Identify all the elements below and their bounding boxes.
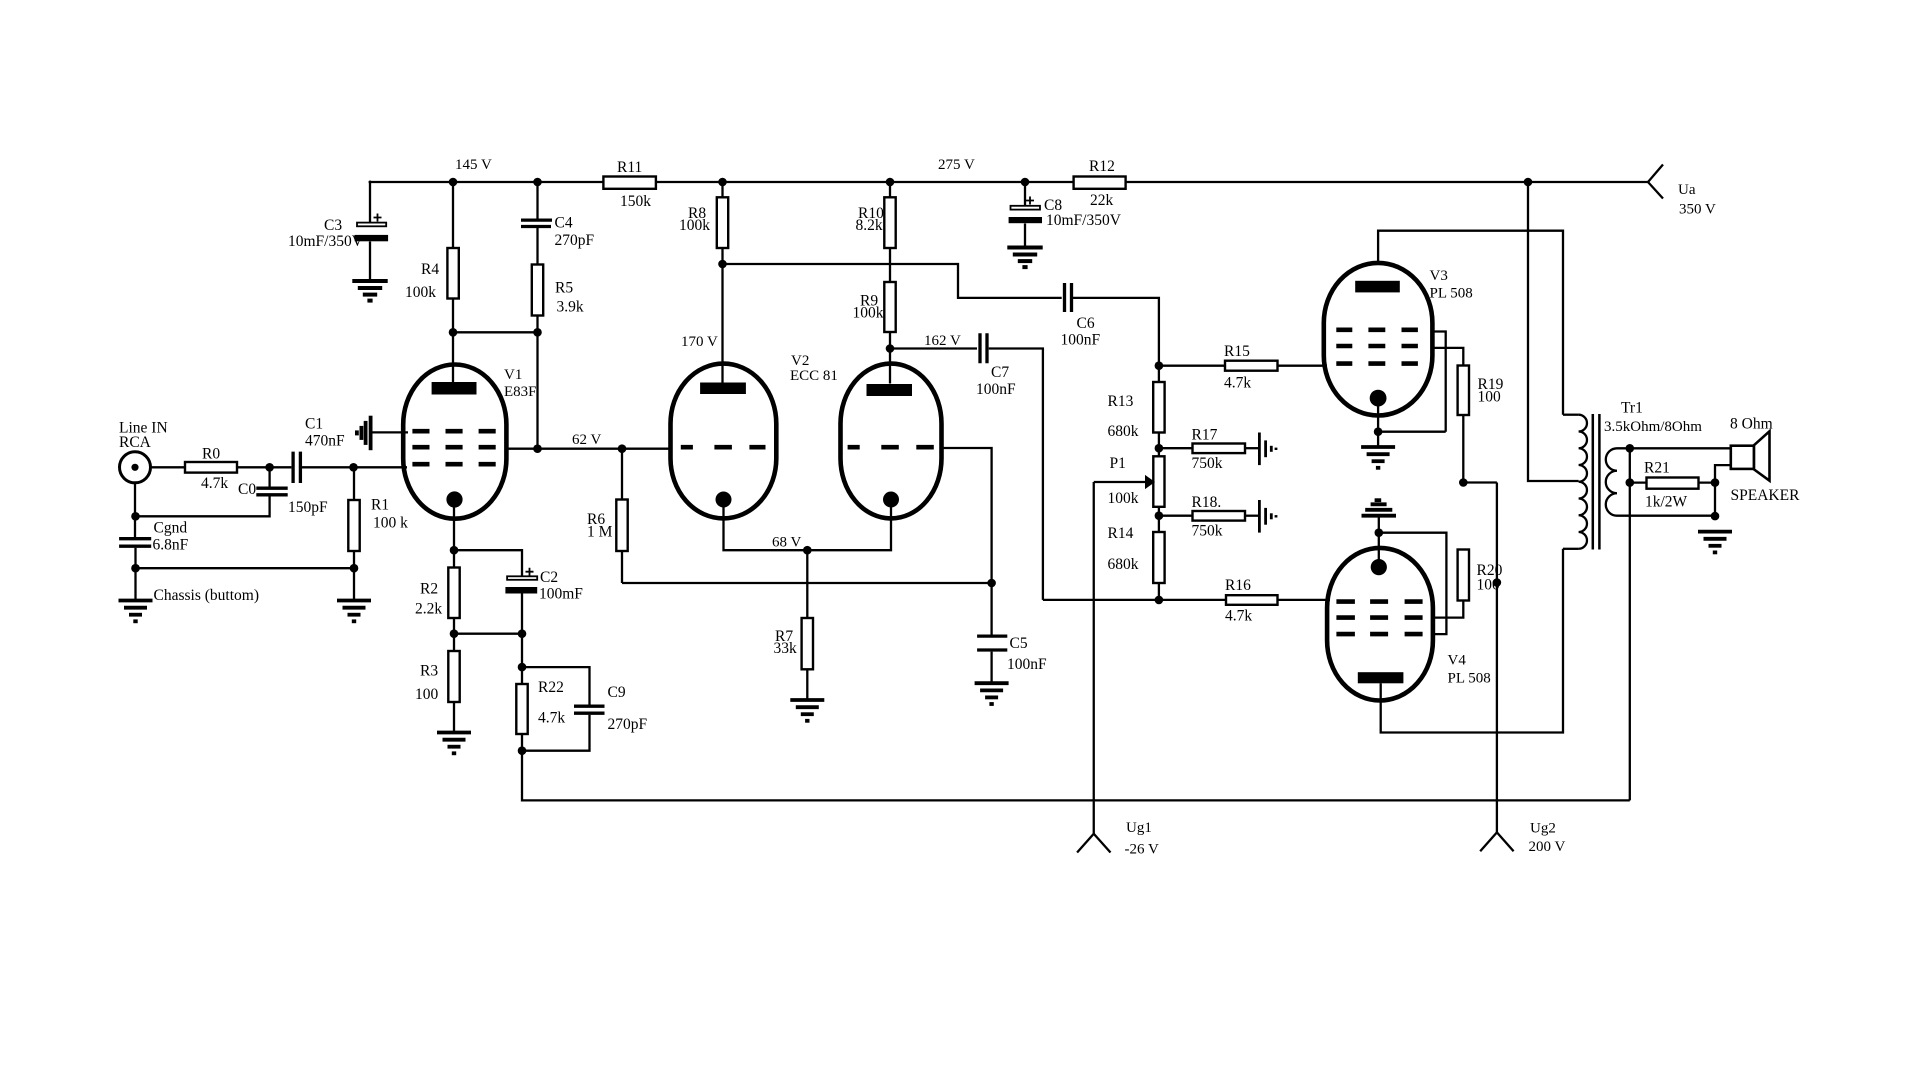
- node rail at R8: [718, 178, 727, 187]
- node 68V cathode junction: [803, 546, 812, 555]
- svg-text:SPEAKER: SPEAKER: [1731, 487, 1801, 504]
- resistor R21 1k/2W: [1630, 460, 1715, 511]
- svg-text:750k: 750k: [1192, 455, 1223, 472]
- resistor R19 100: [1431, 348, 1504, 483]
- wire V2b cathode: [807, 507, 891, 550]
- node R21 right: [1711, 478, 1720, 487]
- wire RCA shield down: [134, 483, 136, 537]
- svg-text:162 V: 162 V: [924, 333, 961, 349]
- svg-text:150pF: 150pF: [288, 499, 328, 516]
- svg-text:680k: 680k: [1108, 423, 1139, 440]
- wire V3 anode top cap to Tr1 primary top: [1378, 231, 1563, 415]
- wire V1 g3 ground: [371, 431, 408, 433]
- svg-text:4.7k: 4.7k: [201, 475, 228, 492]
- resistor R16 4.7k: [1043, 577, 1330, 625]
- resistor R15 4.7k: [1159, 343, 1327, 392]
- resistor R18 750k: [1159, 494, 1259, 540]
- capacitor C7 100nF: [976, 333, 1016, 398]
- svg-text:R11: R11: [617, 159, 642, 176]
- svg-text:C4: C4: [555, 215, 573, 232]
- wire R0 to C1: [237, 466, 291, 468]
- tube V2a ECC81 triode: [671, 364, 777, 519]
- svg-text:100 k: 100 k: [373, 515, 408, 532]
- tube V2b ECC81 triode: [841, 364, 942, 519]
- node R13 top / R15 tap: [1155, 361, 1164, 370]
- capacitor C3 10mF/350V electrolytic: [288, 182, 388, 281]
- resistor R1 100k: [348, 467, 408, 600]
- svg-text:3.5kOhm/8Ohm: 3.5kOhm/8Ohm: [1604, 419, 1702, 435]
- terminal Ug2 200V fork: [1480, 821, 1565, 856]
- svg-text:V3: V3: [1430, 268, 1448, 284]
- svg-text:RCA: RCA: [119, 434, 152, 451]
- svg-text:145 V: 145 V: [455, 157, 492, 173]
- wire secondary bottom: [1617, 515, 1715, 517]
- wire V4 anode to Tr1 primary bottom: [1381, 549, 1563, 733]
- resistor R10 8.2k: [856, 182, 896, 282]
- node R4 bottom: [449, 328, 458, 337]
- svg-text:R14: R14: [1108, 525, 1134, 542]
- capacitor C0 150pF: [136, 467, 329, 516]
- wire V2a cathode: [724, 507, 808, 550]
- node R13/R17 junction: [1155, 444, 1164, 453]
- wire V3 cathode: [1377, 406, 1379, 447]
- svg-text:150k: 150k: [620, 193, 651, 210]
- svg-text:C5: C5: [1010, 635, 1028, 652]
- node R19/R20/Ug2 junction: [1459, 478, 1468, 487]
- wire V4 g3 to cathode: [1379, 533, 1447, 634]
- svg-text:100: 100: [415, 686, 439, 703]
- node 162V at R9 bottom: [886, 344, 895, 353]
- svg-text:C3: C3: [324, 217, 342, 234]
- wire C1 to V1 grid: [302, 466, 407, 468]
- svg-text:1k/2W: 1k/2W: [1645, 494, 1688, 511]
- connector Line IN RCA jack: [119, 420, 168, 483]
- node R21 left: [1626, 478, 1635, 487]
- node rail at C3: [369, 181, 372, 184]
- resistor R5 3.9k: [532, 265, 584, 450]
- node secondary bottom / ground: [1711, 512, 1720, 521]
- svg-text:V1: V1: [504, 367, 522, 383]
- capacitor C9 270pF: [522, 667, 648, 751]
- svg-text:R16: R16: [1225, 577, 1251, 594]
- capacitor C4 270pF: [521, 182, 595, 265]
- svg-text:ECC 81: ECC 81: [790, 368, 838, 384]
- svg-text:V4: V4: [1448, 653, 1467, 669]
- svg-text:R5: R5: [555, 280, 573, 297]
- svg-text:Ua: Ua: [1678, 182, 1696, 198]
- svg-text:R1: R1: [371, 497, 389, 514]
- svg-text:Ug1: Ug1: [1126, 820, 1152, 836]
- svg-text:R15: R15: [1224, 343, 1250, 360]
- terminal Ug1 -26V fork: [1077, 820, 1159, 858]
- node dot on Ug2 line: [1493, 578, 1502, 587]
- svg-text:100k: 100k: [853, 305, 884, 322]
- svg-text:170 V: 170 V: [681, 334, 718, 350]
- svg-text:100: 100: [1477, 577, 1501, 594]
- resistor R0 4.7k: [185, 446, 237, 493]
- label V2 ECC 81: [790, 353, 838, 384]
- resistor R3 100: [415, 651, 460, 733]
- wire RCA to R0: [151, 466, 186, 468]
- svg-text:4.7k: 4.7k: [538, 710, 565, 727]
- svg-text:100k: 100k: [405, 284, 436, 301]
- svg-text:R22: R22: [538, 679, 564, 696]
- capacitor C8 10mF/350V electrolytic: [1009, 182, 1122, 248]
- svg-text:C6: C6: [1077, 315, 1095, 332]
- resistor R13 680k: [1108, 366, 1165, 457]
- svg-text:100k: 100k: [1108, 490, 1139, 507]
- node P1/R18 junction: [1155, 511, 1164, 520]
- wire chassis bus to R1 ground: [136, 567, 355, 569]
- resistor R22 4.7k: [516, 667, 565, 751]
- wire anode join R4-R5: [453, 331, 538, 333]
- ground R17 (rotated right): [1259, 433, 1276, 466]
- node R14 bottom / R16 line: [1155, 596, 1164, 605]
- node R1 tap: [349, 463, 358, 472]
- potentiometer P1 100k: [1108, 455, 1165, 507]
- svg-text:Ug2: Ug2: [1530, 821, 1556, 837]
- svg-text:750k: 750k: [1192, 523, 1223, 540]
- ground V4 cathode (inverted): [1362, 500, 1397, 516]
- wire cathode to C2: [454, 550, 522, 576]
- node rail at C8: [1021, 178, 1030, 187]
- svg-text:Cgnd: Cgnd: [154, 520, 188, 537]
- capacitor Cgnd 6.8nF: [119, 520, 189, 601]
- wire Ua rail to Tr1 centre tap: [1528, 182, 1579, 481]
- svg-text:68 V: 68 V: [772, 535, 801, 551]
- svg-text:C1: C1: [305, 416, 323, 433]
- svg-text:R17: R17: [1192, 427, 1218, 444]
- svg-text:PL 508: PL 508: [1430, 286, 1473, 302]
- svg-text:E83F: E83F: [504, 384, 537, 400]
- transformer Tr1 core: [1593, 414, 1600, 550]
- svg-text:3.9k: 3.9k: [557, 299, 584, 316]
- wire feedback bus: [522, 751, 1630, 801]
- ground R1: [337, 601, 371, 622]
- svg-text:6.8nF: 6.8nF: [153, 537, 189, 554]
- wire: B+ top rail 145V/275V: [370, 181, 1648, 183]
- svg-text:R21: R21: [1644, 460, 1670, 477]
- node R8 bottom tap: [718, 260, 727, 269]
- svg-text:R0: R0: [202, 446, 220, 463]
- resistor R9 100k: [853, 282, 896, 384]
- svg-text:270pF: 270pF: [608, 716, 648, 733]
- tube V3 PL508: [1324, 263, 1473, 416]
- svg-text:8.2k: 8.2k: [856, 217, 883, 234]
- svg-text:R4: R4: [421, 261, 439, 278]
- svg-text:100: 100: [1478, 389, 1502, 406]
- ground C3: [352, 281, 387, 301]
- svg-text:275 V: 275 V: [938, 157, 975, 173]
- resistor R11 150k: [603, 159, 656, 210]
- capacitor C5 100nF: [977, 635, 1047, 683]
- svg-text:100k: 100k: [679, 217, 710, 234]
- wire Ug2 drop: [1496, 483, 1498, 833]
- node rail at R10: [886, 178, 895, 187]
- svg-text:8 Ohm: 8 Ohm: [1730, 416, 1773, 433]
- svg-text:V2: V2: [791, 353, 809, 369]
- resistor R14 680k: [1108, 507, 1165, 600]
- speaker 8 Ohm: [1730, 416, 1800, 505]
- transformer Tr1 primary winding: [1563, 415, 1587, 549]
- svg-text:100mF: 100mF: [539, 586, 583, 603]
- ground R3: [437, 733, 471, 754]
- wire V3 g2 to cathode: [1431, 332, 1446, 432]
- node C0 tap: [265, 463, 274, 472]
- svg-text:4.7k: 4.7k: [1225, 608, 1252, 625]
- wire feedback drop: [1629, 448, 1631, 800]
- svg-text:C2: C2: [540, 569, 558, 586]
- node C2 bottom: [518, 629, 527, 638]
- capacitor C6 100nF: [1061, 283, 1101, 349]
- svg-text:P1: P1: [1110, 455, 1126, 472]
- svg-text:22k: 22k: [1090, 192, 1114, 209]
- wire secondary top to speaker: [1617, 447, 1731, 449]
- label Tr1: [1604, 400, 1702, 436]
- ground V3 cathode: [1361, 447, 1395, 468]
- svg-text:R12: R12: [1089, 158, 1115, 175]
- resistor R2 2.2k: [415, 550, 460, 651]
- node rail at C4: [533, 178, 542, 187]
- svg-text:100nF: 100nF: [1061, 332, 1101, 349]
- wire Ug1 drop: [1093, 482, 1095, 834]
- resistor R20 100: [1433, 550, 1503, 618]
- svg-text:100nF: 100nF: [1007, 656, 1047, 673]
- svg-text:R18.: R18.: [1192, 494, 1222, 511]
- node R6 tap at 62V: [618, 444, 627, 453]
- node feedback tap: [1626, 444, 1635, 453]
- svg-text:200 V: 200 V: [1529, 839, 1566, 855]
- node chassis bus left: [131, 564, 140, 573]
- ground C8: [1007, 248, 1042, 268]
- svg-text:R2: R2: [420, 581, 438, 598]
- wire C7 to R16 line: [989, 349, 1043, 600]
- wire V1 cathode down: [453, 507, 455, 550]
- wire R2 bottom to C2 bottom: [454, 633, 522, 635]
- node R22 bottom: [518, 746, 527, 755]
- node RCA shield / C0: [131, 512, 140, 521]
- node R5 bottom at 62V: [533, 444, 542, 453]
- wire C6 to R13 top: [1073, 298, 1159, 366]
- wire R8 tap to C6: [723, 264, 1062, 298]
- svg-text:100nF: 100nF: [976, 381, 1016, 398]
- node rail at R4: [449, 178, 458, 187]
- svg-text:Tr1: Tr1: [1621, 400, 1643, 417]
- svg-text:C9: C9: [608, 684, 626, 701]
- ground V1 grid (rotated left): [357, 416, 371, 451]
- ground C5: [975, 683, 1009, 704]
- terminal Ua 350V: [1648, 165, 1716, 218]
- resistor R12 22k: [1074, 158, 1126, 209]
- wire 62V: V1 anode to V2a grid: [506, 448, 671, 450]
- wire V4 cathode up: [1378, 517, 1380, 560]
- resistor R17 750k: [1159, 427, 1259, 473]
- node R22 top: [518, 663, 527, 672]
- svg-text:PL 508: PL 508: [1448, 671, 1491, 687]
- transformer Tr1 secondary winding: [1606, 448, 1617, 515]
- wire junction to Ug2 line: [1463, 481, 1497, 483]
- svg-text:4.7k: 4.7k: [1224, 375, 1251, 392]
- tube V1 E83F: [403, 365, 536, 519]
- capacitor C2 100mF electrolytic: [505, 568, 583, 667]
- capacitor C1 470nF: [293, 416, 345, 484]
- wire R6 bottom to C5 line: [622, 582, 992, 584]
- node R1 bottom: [350, 564, 359, 573]
- ground R18 (rotated right): [1259, 500, 1276, 533]
- svg-text:R13: R13: [1108, 393, 1134, 410]
- svg-text:470nF: 470nF: [305, 433, 345, 450]
- ground speaker: [1698, 532, 1732, 553]
- node rail at Ua drop: [1524, 178, 1533, 187]
- svg-text:62 V: 62 V: [572, 432, 601, 448]
- svg-text:350 V: 350 V: [1679, 202, 1716, 218]
- wire speaker return: [1715, 465, 1731, 516]
- tube V4 PL508 (inverted): [1327, 548, 1491, 701]
- svg-text:R3: R3: [420, 663, 438, 680]
- svg-text:33k: 33k: [774, 640, 798, 657]
- svg-text:-26 V: -26 V: [1125, 842, 1159, 858]
- node V1 cathode: [450, 546, 459, 555]
- svg-text:10mF/350V: 10mF/350V: [1046, 212, 1122, 229]
- wire cathode to g2 drop: [1378, 431, 1446, 433]
- node R2 bottom: [450, 629, 459, 638]
- svg-text:1 M: 1 M: [587, 524, 613, 541]
- node V4 cathode junction: [1375, 528, 1384, 537]
- svg-text:2.2k: 2.2k: [415, 601, 442, 618]
- svg-text:C7: C7: [991, 364, 1009, 381]
- resistor R7 33k: [774, 550, 814, 700]
- resistor R8 100k: [679, 182, 728, 383]
- node R5 line: [533, 328, 542, 337]
- ground chassis: [119, 601, 153, 622]
- resistor R4 100k: [405, 182, 459, 383]
- wire 162V to C7: [890, 347, 977, 349]
- svg-text:C0: C0: [238, 481, 256, 498]
- node C5 line junction: [987, 579, 996, 588]
- resistor R6 1M: [587, 449, 628, 583]
- svg-text:Chassis (buttom): Chassis (buttom): [154, 587, 260, 604]
- svg-text:680k: 680k: [1108, 556, 1139, 573]
- wiper arrow P1: [1094, 475, 1155, 489]
- svg-text:270pF: 270pF: [555, 232, 595, 249]
- node V3 cathode junction: [1374, 427, 1383, 436]
- ground R7: [790, 700, 824, 721]
- svg-text:10mF/350V: 10mF/350V: [288, 233, 364, 250]
- wire V2b grid to C5 line: [941, 448, 992, 635]
